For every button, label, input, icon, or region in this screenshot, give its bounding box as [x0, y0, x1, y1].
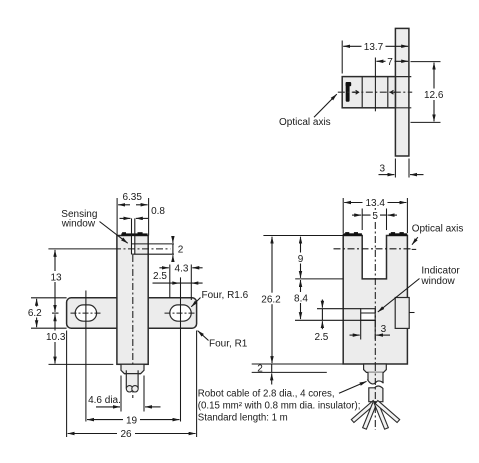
- dimension 3 (bar width): [379, 159, 424, 178]
- dimension 26.2: [259, 237, 283, 363]
- plate bottom extension line (left): [31, 327, 67, 329]
- right prong black cap: [389, 232, 407, 236]
- slot body outline: [343, 236, 407, 365]
- side view mounting plate bar: [395, 28, 409, 156]
- svg-text:Robot cable of 2.8 dia., 4 cor: Robot cable of 2.8 dia., 4 cores,: [198, 388, 335, 399]
- right mounting hole: [165, 305, 197, 321]
- dimension 7: [376, 56, 408, 68]
- front view tower body: [117, 236, 148, 365]
- front view connector step: [121, 364, 144, 373]
- wire 3 (inner right): [374, 402, 388, 429]
- side view centerline: [338, 91, 412, 93]
- dimension 2 (bottom step): [257, 364, 271, 385]
- body top extension line: [263, 235, 343, 237]
- svg-text:3: 3: [381, 324, 387, 335]
- svg-text:19: 19: [126, 415, 138, 426]
- slit white channel: [132, 236, 134, 254]
- dimension 13: [49, 250, 63, 313]
- svg-text:(0.15 mm² with 0.8 mm dia. ins: (0.15 mm² with 0.8 mm dia. insulator);: [198, 401, 361, 412]
- left mounting hole: [71, 305, 102, 321]
- slit lines 0.8: [132, 218, 135, 254]
- small arrow on centerline (left): [353, 90, 359, 94]
- indicator bottom extension line: [295, 319, 375, 321]
- slot view connector step 2: [368, 372, 384, 383]
- indicator window square: [361, 309, 376, 321]
- aperture lines (2 high window): [132, 244, 175, 254]
- svg-text:2: 2: [257, 364, 263, 375]
- svg-text:4.3: 4.3: [175, 264, 189, 275]
- dimension 13.7: [342, 41, 408, 74]
- svg-text:4.6 dia.: 4.6 dia.: [88, 395, 121, 406]
- left hole vertical centerline: [85, 291, 87, 422]
- dimension 3 (indicator width): [350, 320, 391, 339]
- dimension 13.4: [343, 197, 407, 233]
- label Optical axis (right view): [412, 224, 464, 250]
- slot view centerline lower part: [374, 364, 376, 430]
- svg-text:window: window: [420, 276, 455, 287]
- left prong black cap: [343, 232, 362, 236]
- cable block: [369, 386, 383, 402]
- svg-text:26: 26: [120, 429, 132, 440]
- svg-text:5: 5: [372, 211, 378, 222]
- wire 2 (inner left): [363, 402, 377, 429]
- sensing window black strip: [121, 232, 147, 236]
- label Sensing window: [61, 209, 128, 243]
- svg-text:12.6: 12.6: [424, 90, 444, 101]
- tower bottom extension line (left): [49, 363, 114, 365]
- slot view connector step 1: [364, 364, 387, 372]
- small arrow on centerline (right): [391, 90, 396, 94]
- wire 4 (far right): [375, 400, 400, 422]
- slot view optical axis centerline: [334, 248, 412, 250]
- dimension 6.35: [117, 192, 149, 235]
- svg-text:6.2: 6.2: [28, 308, 42, 319]
- svg-text:2.5: 2.5: [153, 271, 167, 282]
- label Four, R1.6: [191, 290, 248, 307]
- right hole vertical centerline: [180, 277, 182, 421]
- label Optical axis (side view): [279, 94, 337, 128]
- indicator top extension line: [317, 308, 361, 310]
- dimension 12.6: [411, 62, 447, 123]
- dimension 5: [352, 209, 397, 231]
- dimension 26: [67, 331, 197, 441]
- svg-text:13: 13: [50, 272, 62, 283]
- label Four, R1: [198, 331, 248, 350]
- svg-text:7: 7: [387, 57, 393, 68]
- svg-text:window: window: [61, 219, 96, 230]
- dimension 10.3: [42, 314, 69, 363]
- step bottom extension line: [252, 371, 327, 373]
- optical axis horizontal line: [48, 248, 170, 250]
- svg-text:10.3: 10.3: [46, 332, 66, 343]
- svg-text:2.5: 2.5: [314, 332, 328, 343]
- dimension 0.8: [120, 206, 166, 218]
- wire 1 (far left): [351, 400, 376, 422]
- front view cable: [124, 370, 140, 392]
- svg-text:13.7: 13.7: [364, 42, 384, 53]
- front view vertical centerline: [132, 255, 134, 398]
- side tab (right edge): [395, 298, 414, 329]
- leader to cable break: [339, 381, 367, 393]
- svg-text:Indicator: Indicator: [421, 266, 460, 277]
- dimension 2.5 (right view): [314, 300, 328, 344]
- plate top extension line (left): [31, 297, 67, 299]
- dimension 19: [87, 414, 180, 426]
- svg-text:Optical axis: Optical axis: [279, 117, 331, 128]
- cable break symbol: [367, 379, 383, 384]
- svg-text:Four, R1.6: Four, R1.6: [202, 290, 249, 301]
- svg-text:Four, R1: Four, R1: [209, 339, 248, 350]
- front view mounting plate: [67, 298, 197, 328]
- 7-extension line crossing block: [374, 58, 376, 112]
- svg-text:3: 3: [380, 163, 386, 174]
- dimension 2.5: [153, 271, 203, 285]
- dimension 6.2: [27, 299, 43, 327]
- dimension 9: [296, 237, 306, 278]
- dimension 4.3: [159, 264, 202, 300]
- svg-text:9: 9: [298, 254, 304, 265]
- svg-text:Standard length: 1 m: Standard length: 1 m: [198, 413, 288, 424]
- label Indicator window: [378, 266, 461, 312]
- cable note text: [198, 388, 361, 423]
- slot bottom extension line: [295, 278, 343, 280]
- svg-text:26.2: 26.2: [261, 294, 281, 305]
- svg-text:Optical axis: Optical axis: [412, 224, 464, 235]
- side view sensor body block: [342, 77, 411, 108]
- dimension 2 (aperture height): [173, 237, 184, 261]
- svg-text:6.35: 6.35: [122, 192, 142, 203]
- svg-text:0.8: 0.8: [151, 206, 165, 217]
- side view optical element (black): [346, 82, 352, 102]
- dimension 8.4: [293, 280, 310, 319]
- dimension 4.6 dia: [88, 376, 160, 412]
- svg-text:13.4: 13.4: [365, 198, 385, 209]
- svg-text:2: 2: [178, 245, 184, 256]
- slot view vertical centerline: [374, 208, 376, 364]
- svg-text:8.4: 8.4: [294, 293, 308, 304]
- body bottom extension line: [252, 363, 344, 365]
